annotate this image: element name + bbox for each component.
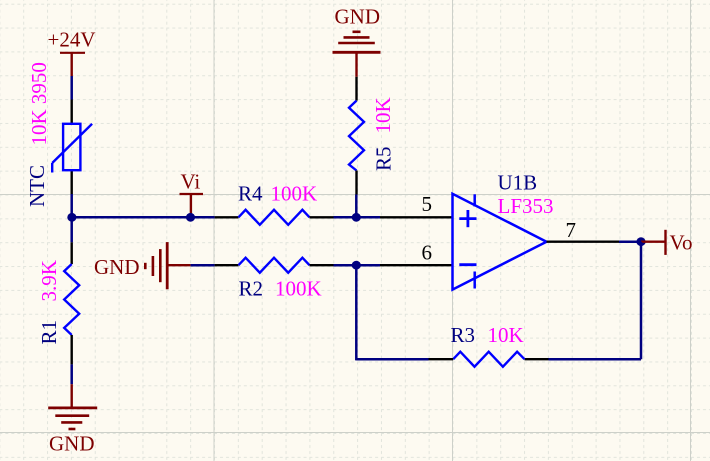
wire +24V to RT (70, 76, 73, 100)
pin 5 (380, 192, 453, 217)
svg-text:10K: 10K (488, 323, 524, 347)
net label Vo (641, 230, 692, 255)
junction node left (67, 213, 76, 222)
svg-text:R3: R3 (451, 323, 476, 347)
junction node Vo (636, 237, 645, 246)
wire node B down (355, 265, 358, 360)
svg-text:U1B: U1B (498, 171, 538, 195)
svg-text:+24V: +24V (48, 28, 96, 52)
resistor R1 3.9K (37, 242, 79, 364)
svg-text:R1: R1 (37, 320, 61, 345)
svg-text:GND: GND (94, 255, 140, 279)
svg-text:R4: R4 (238, 182, 263, 206)
wire row A left (71, 216, 215, 219)
svg-text:Vi: Vi (181, 170, 201, 194)
pin 7 output (547, 218, 620, 242)
ground GND bottom (48, 384, 97, 455)
wire R2 to node B (334, 264, 357, 267)
svg-text:R5: R5 (372, 146, 396, 171)
svg-text:100K: 100K (271, 182, 318, 206)
op-amp U1B LF353 (453, 171, 554, 290)
junction node A (352, 213, 361, 222)
svg-text:GND: GND (335, 5, 381, 29)
wire GND to R2 (191, 264, 215, 267)
svg-text:Vo: Vo (670, 231, 693, 255)
svg-text:GND: GND (49, 432, 95, 456)
power +24V (48, 28, 96, 77)
svg-text:3.9K: 3.9K (37, 260, 61, 301)
junction Vi node (186, 213, 195, 222)
ground GND middle (94, 242, 191, 289)
wire feedback bottom right (549, 358, 642, 361)
junction node B (352, 261, 361, 270)
svg-text:7: 7 (566, 218, 577, 242)
wire pin 7 to node Vo (619, 240, 641, 243)
ground GND top (333, 5, 381, 77)
wire node left down to R1 (70, 217, 73, 242)
wire node B to pin 6 (356, 264, 380, 267)
svg-text:5: 5 (422, 192, 433, 216)
wire node A to pin 5 (356, 216, 380, 219)
thermistor RT NTC 10K 3950 (25, 62, 92, 207)
resistor R3 10K (429, 323, 549, 367)
wire feedback bottom left (356, 358, 428, 361)
svg-text:6: 6 (422, 241, 433, 265)
wire R1 to GND (70, 364, 73, 384)
wire R5 to node A (355, 195, 358, 218)
svg-text:LF353: LF353 (498, 194, 554, 218)
wire node Vo down (640, 242, 643, 360)
svg-text:NTC: NTC (25, 165, 49, 207)
svg-text:100K: 100K (275, 277, 322, 301)
resistor R4 100K (215, 182, 334, 225)
net label Vi (180, 170, 204, 217)
pin 6 (380, 241, 453, 266)
wire RT to node (70, 194, 73, 218)
resistor R2 100K (215, 258, 334, 301)
resistor R5 10K (349, 77, 396, 195)
svg-text:10K 3950: 10K 3950 (27, 62, 51, 145)
wire R4 to node A (334, 216, 357, 219)
svg-text:R2: R2 (239, 277, 264, 301)
svg-text:10K: 10K (371, 97, 395, 133)
